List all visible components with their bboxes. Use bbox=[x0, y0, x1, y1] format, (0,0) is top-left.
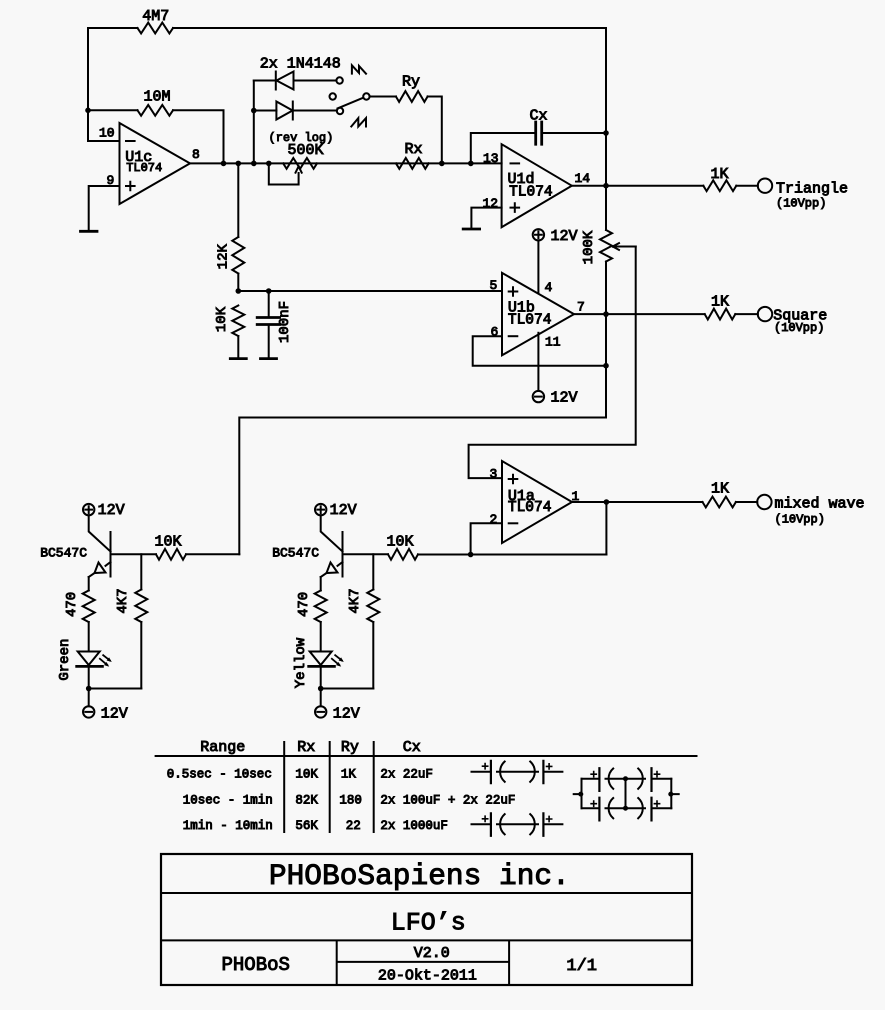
svg-text:4M7: 4M7 bbox=[142, 8, 169, 25]
resistor 10K base Yellow bbox=[343, 553, 389, 555]
wire square signal to green 10K bbox=[186, 553, 239, 555]
resistor 12K bbox=[237, 163, 239, 237]
svg-text:82K: 82K bbox=[295, 794, 318, 808]
svg-text:470: 470 bbox=[296, 592, 312, 617]
svg-text:14: 14 bbox=[575, 171, 591, 186]
svg-text:4K7: 4K7 bbox=[115, 588, 131, 613]
node pin2 junction bbox=[468, 552, 474, 558]
svg-text:TL074: TL074 bbox=[508, 500, 552, 516]
wire U1b pin11 bbox=[537, 333, 539, 391]
svg-text:10sec - 1min: 10sec - 1min bbox=[183, 794, 273, 808]
svg-text:12V: 12V bbox=[333, 706, 360, 723]
resistor 1K mixed bbox=[703, 497, 736, 508]
svg-text:11: 11 bbox=[545, 335, 561, 350]
power -12V U1b bbox=[533, 391, 544, 402]
op-amp U1a bbox=[502, 461, 572, 543]
svg-text:V2.0: V2.0 bbox=[414, 945, 450, 962]
svg-text:Range: Range bbox=[200, 739, 245, 756]
title block outer frame bbox=[161, 854, 692, 985]
svg-text:TL074: TL074 bbox=[508, 313, 552, 329]
node U1b feedback junction bbox=[603, 363, 609, 369]
svg-text:(10Vpp): (10Vpp) bbox=[775, 513, 825, 527]
title block dividers bbox=[161, 893, 692, 985]
svg-text:13: 13 bbox=[483, 151, 499, 166]
svg-text:Ry: Ry bbox=[341, 739, 359, 756]
node 10M tap bbox=[221, 161, 227, 167]
capacitor Cx bbox=[471, 133, 535, 163]
wire 100K wiper to U1a pin3 bbox=[469, 247, 636, 479]
svg-text:BC547C: BC547C bbox=[272, 546, 319, 561]
svg-text:4: 4 bbox=[545, 280, 553, 295]
transistor Q BC547C Yellow bbox=[321, 515, 343, 551]
svg-text:mixed wave: mixed wave bbox=[775, 496, 865, 513]
op-amp U1d bbox=[502, 144, 572, 227]
svg-text:2: 2 bbox=[490, 512, 498, 527]
node lower diode junction bbox=[251, 108, 257, 114]
svg-text:PHOBoSapiens inc.: PHOBoSapiens inc. bbox=[269, 859, 570, 893]
node 100nF tap bbox=[266, 288, 272, 294]
svg-text:10K: 10K bbox=[214, 306, 230, 332]
resistor 4K7 Yellow bbox=[372, 554, 374, 589]
wire diode branch vertical bbox=[253, 81, 255, 164]
transistor Q BC547C Green bbox=[89, 515, 111, 551]
capacitor icon row2 parallel pair bottom bbox=[582, 807, 672, 809]
node pot tap bbox=[266, 161, 272, 167]
resistor 10K base Green bbox=[111, 553, 157, 555]
svg-text:TL074: TL074 bbox=[509, 185, 553, 201]
svg-text:1/1: 1/1 bbox=[566, 957, 597, 976]
svg-text:Yellow: Yellow bbox=[293, 637, 309, 688]
wire 1K to square terminal bbox=[735, 313, 758, 315]
svg-text:2x 1000uF: 2x 1000uF bbox=[380, 819, 448, 833]
wire U1a output bbox=[572, 501, 703, 503]
node LED cathode Green bbox=[86, 686, 92, 692]
sawtooth icon falling bbox=[352, 65, 366, 73]
power +12V U1b bbox=[533, 229, 544, 240]
resistor 1K square bbox=[705, 309, 736, 320]
wire U1b output bbox=[574, 313, 705, 315]
ground 100nF bbox=[261, 357, 277, 360]
svg-text:180: 180 bbox=[339, 794, 362, 808]
potentiometer 100K bbox=[600, 230, 612, 262]
sawtooth icon rising bbox=[351, 118, 366, 126]
svg-text:12V: 12V bbox=[330, 502, 357, 519]
op-amp U1b bbox=[502, 273, 574, 355]
svg-text:Rx: Rx bbox=[297, 739, 315, 756]
node U1b output junction bbox=[603, 311, 609, 317]
svg-text:12K: 12K bbox=[215, 244, 231, 270]
capacitor 100nF bbox=[268, 291, 270, 318]
svg-text:7: 7 bbox=[577, 300, 585, 315]
svg-text:100nF: 100nF bbox=[277, 301, 293, 343]
ground U1d pin12 bbox=[463, 228, 479, 231]
wiper 100K bbox=[614, 246, 636, 248]
wire U1a feedback vertical bbox=[605, 502, 607, 555]
power +12V transistor Green bbox=[83, 504, 94, 515]
resistor 470 Yellow bbox=[320, 577, 322, 591]
svg-text:12V: 12V bbox=[98, 502, 125, 519]
wire 500K wiper loop bbox=[269, 163, 299, 184]
svg-text:Triangle: Triangle bbox=[776, 181, 848, 198]
op-amp U1c bbox=[120, 123, 191, 204]
wire LED cathode Yellow bbox=[320, 666, 322, 706]
node U1a output junction bbox=[604, 499, 610, 505]
table column separators bbox=[284, 742, 374, 832]
svg-text:2x 22uF: 2x 22uF bbox=[380, 768, 433, 782]
svg-text:Cx: Cx bbox=[403, 739, 421, 756]
wire LED cathode Green bbox=[88, 666, 90, 706]
svg-text:12V: 12V bbox=[101, 706, 128, 723]
wire U1a pin2 feedback bbox=[471, 523, 502, 554]
svg-text:BC547C: BC547C bbox=[40, 546, 87, 561]
svg-text:6: 6 bbox=[491, 325, 499, 340]
svg-text:500K: 500K bbox=[288, 142, 324, 159]
svg-text:3: 3 bbox=[490, 467, 498, 482]
svg-text:Ry: Ry bbox=[402, 74, 420, 91]
wire 10M branch bbox=[88, 110, 224, 163]
power -12V transistor Green bbox=[83, 706, 94, 717]
svg-text:12V: 12V bbox=[551, 390, 578, 407]
resistor Ry bbox=[396, 91, 428, 102]
svg-text:8: 8 bbox=[192, 147, 200, 162]
terminal mixed wave output bbox=[757, 495, 771, 509]
svg-text:1min - 10min: 1min - 10min bbox=[183, 819, 273, 833]
resistor 4M7 bbox=[138, 23, 174, 34]
diode D2 lower bbox=[254, 102, 337, 120]
table header rule bbox=[156, 755, 697, 757]
switch SW1 lever bbox=[338, 98, 364, 109]
svg-text:10K: 10K bbox=[387, 534, 414, 551]
power -12V transistor Yellow bbox=[315, 706, 326, 717]
resistor 1K triangle bbox=[703, 180, 736, 191]
svg-text:10M: 10M bbox=[144, 89, 171, 106]
ground 10K bbox=[230, 357, 246, 360]
wire top feedback loop bbox=[88, 27, 606, 29]
node 10M left junction bbox=[85, 108, 91, 114]
resistor 10K divider bbox=[232, 306, 244, 337]
svg-text:Green: Green bbox=[57, 639, 73, 681]
node Cx tap bbox=[468, 161, 474, 167]
power +12V transistor Yellow bbox=[315, 504, 326, 515]
svg-text:2x 100uF + 2x 22uF: 2x 100uF + 2x 22uF bbox=[380, 794, 515, 808]
wire divider to U1b pin5 bbox=[238, 290, 502, 292]
node Cx right junction bbox=[603, 130, 609, 136]
svg-text:1K: 1K bbox=[341, 768, 357, 782]
wire U1d pin12 to ground bbox=[471, 208, 501, 229]
svg-text:20-Okt-2011: 20-Okt-2011 bbox=[378, 968, 477, 985]
wire U1b pin4 bbox=[537, 241, 539, 293]
svg-text:Rx: Rx bbox=[405, 141, 423, 158]
wire mixed node horizontal bbox=[418, 554, 606, 556]
wire U1c pin 9 bbox=[89, 186, 120, 231]
resistor Rx bbox=[396, 158, 429, 169]
node Ry-Rx junction bbox=[439, 161, 445, 167]
node divider junction bbox=[236, 288, 242, 294]
switch SW1 terminals bbox=[336, 77, 342, 83]
terminal Square output bbox=[758, 307, 772, 321]
svg-text:1K: 1K bbox=[711, 294, 729, 311]
capacitor icon row2 junctions bbox=[578, 792, 583, 797]
svg-text:10K: 10K bbox=[295, 768, 318, 782]
svg-text:(10Vpp): (10Vpp) bbox=[774, 321, 824, 335]
node LED cathode Yellow bbox=[318, 686, 324, 692]
svg-text:12V: 12V bbox=[551, 228, 578, 245]
svg-text:5: 5 bbox=[490, 278, 498, 293]
svg-text:10: 10 bbox=[99, 126, 115, 141]
wire switch to Ry bbox=[370, 96, 396, 98]
svg-text:Cx: Cx bbox=[530, 108, 548, 125]
svg-text:100K: 100K bbox=[581, 230, 597, 264]
ground U1c pin9 bbox=[81, 230, 98, 233]
svg-text:4K7: 4K7 bbox=[347, 588, 363, 613]
LED Yellow bbox=[310, 652, 332, 666]
arrow 500K wiper bbox=[296, 166, 302, 172]
terminal Triangle output bbox=[758, 179, 772, 193]
capacitor icon row3 2x1000uF bbox=[472, 823, 563, 825]
svg-text:0.5sec - 10sec: 0.5sec - 10sec bbox=[167, 768, 272, 782]
node 12K tap bbox=[236, 161, 242, 167]
wire 1K to terminal bbox=[736, 185, 758, 187]
svg-text:10K: 10K bbox=[155, 534, 182, 551]
wire U1c output bbox=[190, 162, 502, 164]
svg-text:(10Vpp): (10Vpp) bbox=[776, 197, 826, 211]
node U1d output junction bbox=[603, 183, 609, 189]
svg-text:22: 22 bbox=[346, 819, 361, 833]
wire left vertical to U1c pin 10 bbox=[88, 28, 120, 141]
svg-text:2x 1N4148: 2x 1N4148 bbox=[260, 56, 341, 73]
wire 1K to mixed terminal bbox=[736, 501, 757, 503]
resistor 470 Green bbox=[88, 577, 90, 591]
svg-text:56K: 56K bbox=[295, 819, 318, 833]
wire U1d output bbox=[572, 185, 704, 187]
LED Green bbox=[78, 652, 100, 666]
wire Ry to Rx node bbox=[428, 97, 442, 164]
resistor 10M bbox=[138, 105, 174, 116]
svg-text:PHOBoS: PHOBoS bbox=[222, 954, 290, 976]
wire U1b pin6 feedback bbox=[473, 336, 606, 366]
capacitor icon row2 parallel pair top bbox=[582, 778, 672, 780]
resistor 4K7 Green bbox=[140, 554, 142, 589]
capacitor icon row1 2x22uF bbox=[472, 771, 563, 773]
node diode branch tap bbox=[251, 161, 257, 167]
wire right vertical main bbox=[239, 28, 606, 554]
potentiometer 500K bbox=[283, 158, 317, 169]
capacitor icon row2 frame bbox=[574, 779, 679, 809]
svg-text:1K: 1K bbox=[711, 166, 729, 183]
diode D1 upper bbox=[254, 72, 337, 90]
svg-text:LFO’s: LFO’s bbox=[391, 909, 466, 938]
svg-text:TL074: TL074 bbox=[126, 161, 162, 175]
svg-text:1K: 1K bbox=[711, 481, 729, 498]
svg-text:470: 470 bbox=[64, 592, 80, 617]
svg-text:12: 12 bbox=[483, 196, 499, 211]
